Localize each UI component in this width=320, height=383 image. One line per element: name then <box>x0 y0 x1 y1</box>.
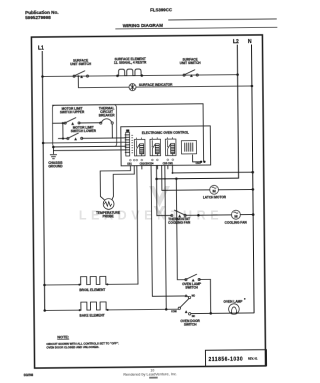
svg-text:LATCH MOTOR: LATCH MOTOR <box>203 195 227 199</box>
switch surface unit switch 2 <box>180 57 202 77</box>
wire box top to DLB feed <box>52 104 203 105</box>
switch motor limit switch upper <box>52 106 100 125</box>
junction indicator tap <box>77 75 79 77</box>
svg-text:ELECTRONIC OVEN CONTROL: ELECTRONIC OVEN CONTROL <box>142 131 189 135</box>
svg-text:CB1: CB1 <box>127 164 132 166</box>
switch oven lamp switch <box>182 274 211 290</box>
junction N indicator <box>251 85 254 88</box>
switch motor limit switch lower <box>58 125 96 140</box>
junction lamp line <box>209 312 212 315</box>
svg-text:03/98: 03/98 <box>24 373 34 377</box>
wire probe lead left <box>100 166 131 200</box>
wire bake feed <box>165 165 166 309</box>
svg-text:NOTE:: NOTE: <box>57 335 69 339</box>
note text <box>46 335 119 350</box>
motor cooling fan <box>225 210 255 225</box>
wire L2 bus <box>155 45 238 179</box>
switch surface unit switch 1 <box>70 58 92 78</box>
wire broil feed <box>137 166 138 284</box>
wire thermostat feed <box>155 166 157 216</box>
resistor broil element <box>43 276 138 293</box>
svg-text:L1: L1 <box>38 45 44 51</box>
relay K2 <box>150 139 161 156</box>
header underline rule <box>115 27 277 29</box>
junction EOC-N <box>251 171 254 174</box>
wire latch feed <box>161 165 163 190</box>
stub terminals below EOC <box>142 165 168 169</box>
svg-text:CSO: CSO <box>196 163 201 165</box>
terminal rings EOC <box>130 159 174 161</box>
header publication number <box>25 10 59 20</box>
svg-text:BROIL ELEMENT: BROIL ELEMENT <box>79 288 105 292</box>
svg-text:L2: L2 <box>233 39 239 45</box>
terminal DLB dots <box>200 161 202 163</box>
wire limit switch link <box>62 123 64 138</box>
box motor limit switch enclosure <box>52 105 116 147</box>
junction lamp feed tap <box>175 177 178 180</box>
junction L1 lower feed <box>42 142 45 145</box>
svg-text:COOLING FAN: COOLING FAN <box>225 221 248 225</box>
wire indicator branch <box>78 76 129 88</box>
svg-text:LEADVENTURE: LEADVENTURE <box>79 209 223 223</box>
svg-text:Rendered by LeadVenture, Inc.: Rendered by LeadVenture, Inc. <box>123 371 177 377</box>
terminal labels EOC <box>127 162 201 166</box>
wire ground spur to connector <box>53 149 125 152</box>
svg-text:WIRING DIAGRAM: WIRING DIAGRAM <box>123 23 164 28</box>
junction EOC-N left <box>172 172 174 174</box>
wire DLB drop into EOC <box>202 104 205 161</box>
svg-text:SWITCH: SWITCH <box>184 322 197 326</box>
ground chassis ground <box>48 147 63 169</box>
wire EOC to N <box>172 165 252 173</box>
svg-text:OVEN DOOR CLOSED AND UNLOCKED.: OVEN DOOR CLOSED AND UNLOCKED. <box>46 345 99 350</box>
wire probe lead right <box>112 166 135 200</box>
resistor bake element <box>43 301 178 318</box>
breaker thermal circuit breaker <box>99 106 116 124</box>
part number box <box>205 350 266 367</box>
svg-text:BREAKER: BREAKER <box>99 113 115 117</box>
wire L1 bus <box>42 51 44 310</box>
svg-text:N: N <box>248 39 252 45</box>
footer smudge <box>149 377 158 379</box>
wire door NO feed <box>151 165 188 297</box>
svg-text:CIRCUIT SHOWN WITH ALL CONTROL: CIRCUIT SHOWN WITH ALL CONTROLS SET TO "… <box>46 341 119 346</box>
svg-text:M: M <box>212 190 215 194</box>
relay K3 <box>165 139 176 156</box>
resistor surface element <box>114 57 147 77</box>
header rule right <box>168 19 276 20</box>
switch oven door switch <box>171 294 201 327</box>
wire lamp feed drop <box>176 179 186 280</box>
svg-text:M: M <box>234 215 237 219</box>
motor latch motor <box>162 185 254 200</box>
wire thermostat to fan <box>185 214 231 216</box>
svg-text:COM: COM <box>171 311 176 313</box>
svg-text:NO: NO <box>192 296 196 298</box>
svg-text:BAKE ELEMENT: BAKE ELEMENT <box>79 314 104 318</box>
transformer T1 <box>181 141 200 162</box>
wire L1 lower feed to connector <box>43 141 126 144</box>
wire breaker to connector <box>111 124 113 138</box>
junction L2 top <box>236 73 239 76</box>
junction limit link top <box>62 122 64 124</box>
svg-text:SWITCH UPPER: SWITCH UPPER <box>60 110 85 114</box>
svg-text:NC: NC <box>192 316 196 318</box>
wire ground line to connector <box>53 145 126 148</box>
junction ground tap <box>52 146 55 149</box>
wire lamp bottom line <box>191 312 254 315</box>
box electronic oven control <box>121 126 211 166</box>
svg-text:SURFACE INDICATOR: SURFACE INDICATOR <box>139 83 173 87</box>
lamp oven lamp <box>223 299 243 314</box>
relay K1 <box>134 139 145 156</box>
junction thermostat line <box>197 214 200 217</box>
watermark logo <box>149 186 170 216</box>
svg-text:SWITCH LOWER: SWITCH LOWER <box>71 129 97 133</box>
svg-text:UNIT SWITCH: UNIT SWITCH <box>70 62 92 66</box>
wire indicator to N <box>136 86 252 87</box>
wire lamp switch drop <box>209 279 211 313</box>
svg-text:11. SIGNAL, 4 RESTR: 11. SIGNAL, 4 RESTR <box>114 61 147 65</box>
wire N bus <box>251 44 254 312</box>
svg-text:REV. 01: REV. 01 <box>248 356 258 360</box>
svg-text:FLS399CC: FLS399CC <box>150 7 173 12</box>
sensor temperature probe <box>96 198 120 218</box>
svg-text:UNIT SWITCH: UNIT SWITCH <box>180 61 202 65</box>
lamp surface indicator <box>129 83 173 91</box>
junction L2 end <box>155 178 158 181</box>
svg-text:SWITCH: SWITCH <box>185 286 198 290</box>
main border frame <box>31 35 265 368</box>
junction bake cross <box>164 178 166 180</box>
wire top surface circuit <box>42 75 237 77</box>
svg-text:OVEN LAMP: OVEN LAMP <box>223 299 243 303</box>
junction L1 top <box>41 75 44 78</box>
stray mark <box>244 298 246 300</box>
svg-text:211856-1030: 211856-1030 <box>208 357 243 363</box>
wire lower switch to connector <box>82 137 126 139</box>
connector pin marks <box>131 135 133 153</box>
svg-text:5995279998: 5995279998 <box>25 15 51 20</box>
switch thermostat cooling fan <box>157 210 191 225</box>
relay terminal stubs top <box>137 137 173 139</box>
svg-text:CB2CB3CB4: CB2CB3CB4 <box>140 162 155 165</box>
svg-text:CB5 CW1: CB5 CW1 <box>163 163 174 165</box>
connector EOC input header <box>125 129 130 156</box>
svg-text:GROUND: GROUND <box>48 164 63 168</box>
